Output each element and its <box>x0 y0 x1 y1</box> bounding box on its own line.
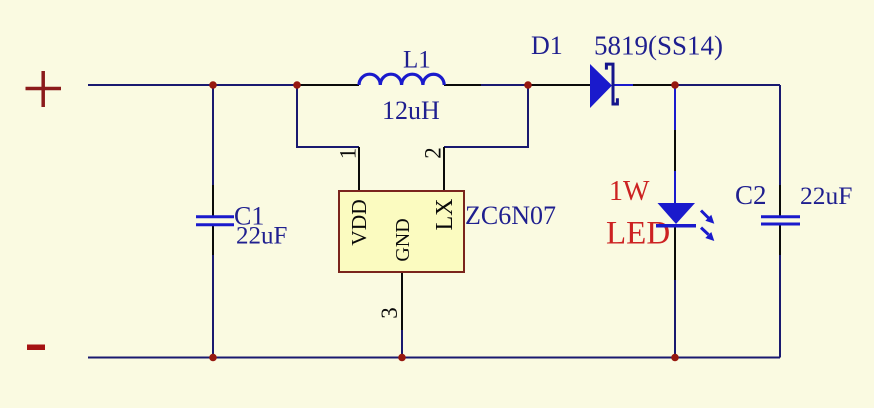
svg-text:2: 2 <box>421 147 446 159</box>
svg-text:ZC6N07: ZC6N07 <box>465 201 556 230</box>
svg-text:3: 3 <box>377 307 402 319</box>
svg-text:GND: GND <box>392 218 414 261</box>
svg-text:12uH: 12uH <box>382 96 440 125</box>
svg-text:D1: D1 <box>531 31 563 60</box>
svg-text:C2: C2 <box>735 180 767 210</box>
svg-text:1: 1 <box>336 148 361 160</box>
svg-text:L1: L1 <box>403 47 431 74</box>
svg-text:5819(SS14): 5819(SS14) <box>594 31 723 61</box>
svg-text:LX: LX <box>432 199 458 231</box>
svg-text:1W: 1W <box>609 176 650 207</box>
svg-text:22uF: 22uF <box>800 181 852 210</box>
svg-text:LED: LED <box>606 216 670 252</box>
svg-text:22uF: 22uF <box>236 223 287 250</box>
svg-text:VDD: VDD <box>347 199 371 246</box>
